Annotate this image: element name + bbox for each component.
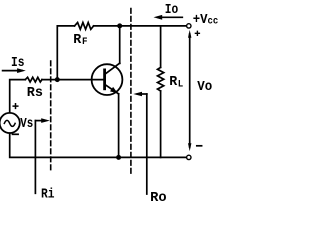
terminal +Vcc open circle — [187, 24, 191, 28]
Is current arrow — [3, 70, 22, 72]
Io arrowhead — [154, 15, 163, 20]
terminal bottom open circle — [187, 155, 191, 159]
Io current arrow — [158, 16, 182, 18]
wire top rail — [94, 25, 187, 27]
minus sign at source — [13, 133, 19, 135]
resistor RF — [75, 23, 94, 30]
Ri pointer line — [34, 121, 36, 194]
plus sign at Vo top — [195, 31, 199, 35]
source Vs circle — [0, 113, 20, 133]
svg-text:Vo: Vo — [197, 80, 212, 95]
Ro pointer arrow — [138, 93, 147, 95]
junction dot collector/top-rail — [117, 23, 122, 28]
wire top-left corner (feedback loop left leg) — [57, 26, 74, 80]
Ri pointer arrowhead — [41, 118, 50, 123]
svg-text:Io: Io — [165, 3, 179, 18]
wire RL bottom lead — [160, 91, 162, 157]
svg-text:cc: cc — [208, 16, 219, 28]
plus sign at source — [13, 104, 18, 109]
arrowhead down at bottom terminal — [188, 143, 191, 151]
resistor RL — [158, 67, 164, 91]
svg-text:Vs: Vs — [20, 117, 33, 132]
Ro pointer line — [146, 94, 148, 194]
svg-text:R: R — [169, 75, 178, 90]
transistor Q1 circle — [92, 64, 123, 95]
source sine symbol — [4, 120, 15, 126]
wire emitter vertical — [118, 94, 120, 157]
resistor Rs — [25, 77, 42, 82]
arrowhead up at +Vcc terminal — [188, 30, 191, 38]
junction dot base — [55, 77, 60, 82]
wire collector vertical — [119, 26, 121, 64]
transistor collector diagonal — [105, 63, 120, 74]
transistor emitter diagonal — [105, 84, 119, 94]
wire Rs to base junction — [42, 79, 57, 81]
svg-text:R: R — [73, 33, 82, 48]
transistor emitter arrowhead — [110, 87, 118, 94]
dashed line Ro port — [130, 9, 132, 175]
Is arrowhead — [17, 68, 26, 73]
junction dot emitter/bottom-rail — [116, 155, 121, 160]
wire right rail (Vo port) — [189, 34, 191, 147]
wire RL branch top lead — [160, 26, 162, 68]
svg-text:F: F — [82, 36, 88, 48]
svg-text:+V: +V — [193, 13, 209, 28]
Ro pointer arrowhead — [133, 92, 142, 97]
svg-text:Ri: Ri — [41, 188, 55, 203]
dashed line Ri port — [50, 61, 52, 170]
transistor base bar — [103, 70, 106, 89]
minus sign at Vo bottom — [197, 145, 202, 147]
svg-text:L: L — [178, 78, 184, 90]
svg-text:Is: Is — [11, 56, 25, 71]
svg-text:Rs: Rs — [27, 86, 43, 101]
Ri pointer arrow — [35, 120, 45, 122]
svg-text:Ro: Ro — [150, 191, 167, 205]
wire base — [57, 79, 104, 81]
wire source to Rs — [10, 80, 26, 113]
wire source bottom lead + bottom rail — [10, 133, 187, 157]
